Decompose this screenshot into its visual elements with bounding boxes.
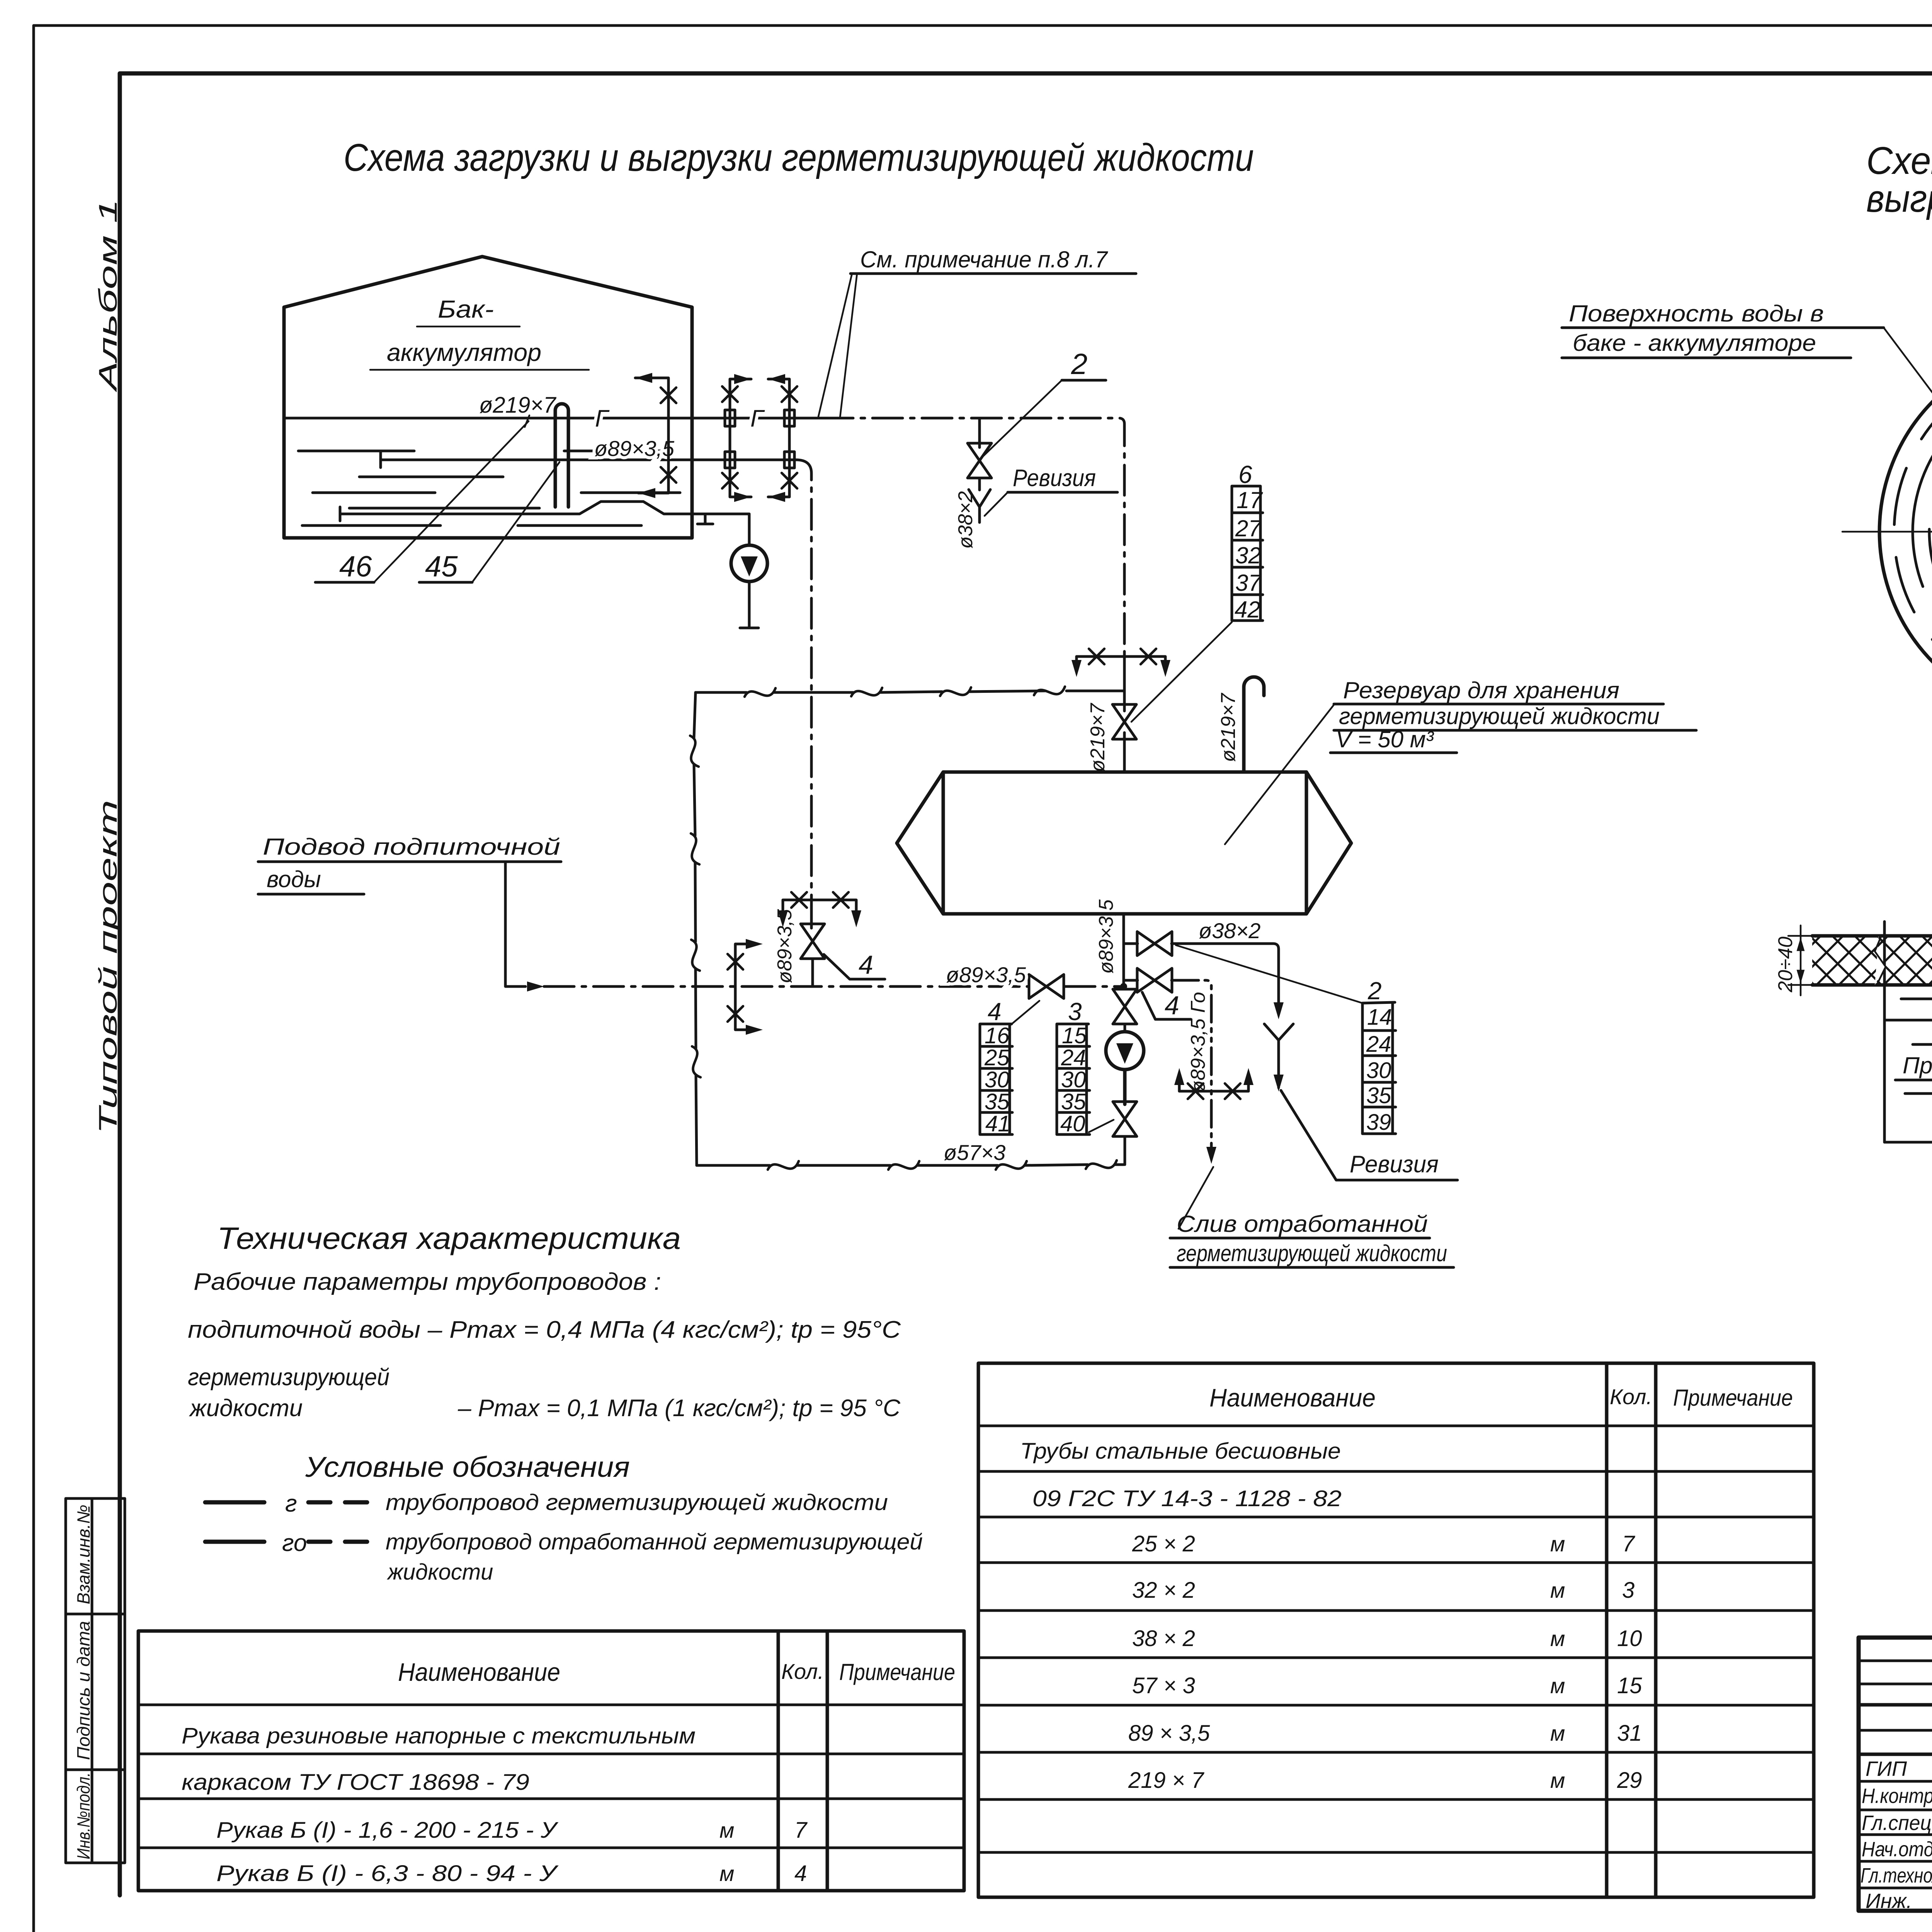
svg-text:Взам.инв.№: Взам.инв.№ — [73, 1505, 94, 1604]
svg-text:2: 2 — [1367, 977, 1382, 1005]
svg-text:– Pmax = 0,1 МПа (1 кгс/см²);: – Pmax = 0,1 МПа (1 кгс/см²); tp = 95 °C — [457, 1395, 901, 1422]
leader to Г line — [818, 274, 857, 417]
svg-text:Инж.: Инж. — [1866, 1889, 1912, 1913]
svg-text:20÷40: 20÷40 — [1774, 937, 1797, 993]
stamp horizontals — [1859, 1705, 1932, 1754]
hose bypass in-tank column — [635, 373, 676, 498]
svg-text:Г: Г — [750, 405, 765, 432]
leader 2 to revision valve — [983, 380, 1062, 456]
leader Слив — [1179, 1167, 1213, 1229]
svg-text:25 × 2: 25 × 2 — [1132, 1531, 1195, 1556]
svg-text:Рабочие параметры трубопрово: Рабочие параметры трубопроводов : — [194, 1269, 661, 1295]
svg-text:39: 39 — [1366, 1110, 1391, 1135]
valve V-pump-bottom — [1113, 1102, 1137, 1136]
svg-text:трубопровод герметизирующей: трубопровод герметизирующей жидкости — [386, 1490, 888, 1515]
svg-text:ø219×7: ø219×7 — [1087, 702, 1109, 772]
svg-text:Наименование: Наименование — [398, 1658, 560, 1686]
valve column from tank: bypass x-x — [783, 900, 856, 920]
svg-text:30: 30 — [1061, 1067, 1086, 1092]
gooseneck vent ф219х7 — [1244, 677, 1264, 772]
svg-text:Слив отработанной: Слив отработанной — [1177, 1211, 1428, 1237]
svg-text:30: 30 — [1366, 1058, 1391, 1083]
leader to reservoir — [1225, 705, 1334, 844]
svg-text:35: 35 — [985, 1089, 1010, 1114]
wire riser under reservoir — [1122, 914, 1125, 986]
svg-text:м: м — [719, 1818, 734, 1842]
water region boundary — [1884, 922, 1932, 1142]
swirl ring solid r308 — [1927, 394, 1932, 670]
svg-text:ø89×3,5: ø89×3,5 — [774, 909, 796, 983]
svg-text:жидкости: жидкости — [189, 1395, 303, 1422]
svg-text:27: 27 — [1235, 515, 1262, 541]
water level lines — [298, 451, 680, 526]
svg-text:17: 17 — [1236, 487, 1263, 513]
branch ф38х2 — [1124, 942, 1138, 945]
pump P1 suction line — [748, 514, 751, 545]
svg-text:м: м — [1550, 1768, 1565, 1793]
svg-text:герметизирующей жидкости: герметизирующей жидкости — [1339, 703, 1660, 729]
svg-text:2: 2 — [1071, 348, 1087, 381]
tank shell circle — [1879, 346, 1932, 718]
svg-text:45: 45 — [425, 550, 458, 583]
svg-text:38 × 2: 38 × 2 — [1132, 1626, 1195, 1651]
svg-text:Г: Г — [595, 405, 610, 432]
svg-text:15: 15 — [1062, 1023, 1087, 1048]
svg-text:Нач.отд.: Нач.отд. — [1862, 1838, 1932, 1861]
svg-text:42: 42 — [1235, 597, 1260, 622]
svg-text:Гл.технол: Гл.технол — [1861, 1864, 1932, 1887]
svg-text:Подвод подпиточной: Подвод подпиточной — [263, 834, 560, 860]
svg-text:ø89×3,5 Го: ø89×3,5 Го — [1187, 992, 1209, 1093]
svg-text:ø57×3: ø57×3 — [944, 1140, 1005, 1165]
centerline horizontal — [1842, 531, 1932, 533]
svg-text:м: м — [1550, 1673, 1565, 1698]
svg-text:м: м — [1550, 1532, 1565, 1556]
water surface line — [1884, 1019, 1932, 1022]
svg-text:57 × 3: 57 × 3 — [1132, 1673, 1195, 1698]
svg-text:09 Г2С ТУ 14-3 - 1128 - 8: 09 Г2С ТУ 14-3 - 1128 - 82 — [1032, 1486, 1342, 1511]
svg-text:4: 4 — [859, 950, 873, 980]
valve V-pump-top — [1124, 986, 1126, 989]
wire ф89 pipe — [381, 459, 796, 461]
svg-text:35: 35 — [1366, 1083, 1391, 1108]
break zigzag band left — [1875, 936, 1886, 985]
svg-text:аккумулятор: аккумулятор — [387, 338, 541, 366]
svg-text:37: 37 — [1235, 570, 1262, 596]
wire return hose line (left vertical with hose breaks) — [694, 692, 697, 1165]
svg-text:г: г — [285, 1490, 297, 1517]
svg-text:баке - аккумуляторе: баке - аккумуляторе — [1573, 330, 1816, 356]
svg-text:Ревизия: Ревизия — [1013, 465, 1096, 492]
number stack 6 — [1131, 461, 1263, 722]
svg-text:40: 40 — [1060, 1111, 1085, 1136]
pump P1 — [731, 545, 767, 628]
svg-text:Схема работы устройства загруз: Схема работы устройства загрузки и — [1866, 139, 1932, 182]
bypass x-x on return line — [728, 939, 763, 1035]
svg-text:Ревизия: Ревизия — [1350, 1151, 1439, 1178]
svg-text:25: 25 — [984, 1045, 1010, 1070]
svg-text:29: 29 — [1617, 1768, 1642, 1793]
branch Го (spent liquid) — [1124, 979, 1138, 982]
hose stub to inlet — [1066, 690, 1124, 692]
svg-text:ø219×7: ø219×7 — [1217, 692, 1240, 762]
svg-text:3: 3 — [1068, 998, 1082, 1026]
svg-text:16: 16 — [985, 1023, 1010, 1048]
svg-text:Типовой проект: Типовой проект — [94, 800, 122, 1134]
pump P2 — [1106, 1032, 1144, 1070]
junction dot — [1120, 983, 1127, 990]
tank Бак-аккумулятор outline — [284, 257, 692, 538]
floating blanket band — [1812, 936, 1932, 985]
number stack 4 — [980, 998, 1039, 1136]
legend line Го — [205, 1529, 923, 1585]
inlet pipe into reservoir — [1123, 657, 1126, 772]
bypass x-x on drain — [1179, 1075, 1248, 1091]
svg-text:Рукав Б (I) - 6,3 - 80 -: Рукав Б (I) - 6,3 - 80 - 94 - У — [216, 1861, 559, 1886]
svg-text:Гл.спец.: Гл.спец. — [1862, 1811, 1932, 1835]
svg-text:24: 24 — [1366, 1032, 1391, 1057]
valve V-219 inlet — [1112, 704, 1136, 739]
svg-text:ø89×3,5: ø89×3,5 — [594, 436, 675, 461]
svg-text:7: 7 — [794, 1818, 808, 1843]
sidebar stamp boxes — [66, 1498, 125, 1863]
riser pipe inside tank — [555, 404, 568, 507]
wire ф57х3 bottom run — [697, 1165, 1124, 1165]
hose connection A with flanges — [722, 374, 751, 502]
svg-text:41: 41 — [985, 1111, 1010, 1136]
svg-text:35: 35 — [1061, 1089, 1086, 1114]
svg-text:воды: воды — [267, 866, 321, 892]
svg-text:4: 4 — [1165, 991, 1179, 1020]
svg-text:ø38×2: ø38×2 — [954, 491, 977, 549]
svg-text:См. примечание п.8 л.7: См. примечание п.8 л.7 — [860, 247, 1109, 272]
stamp frame — [1859, 1638, 1932, 1911]
reservoir left cone — [897, 772, 943, 914]
left parts table frame — [138, 1631, 964, 1891]
svg-text:31: 31 — [1617, 1721, 1642, 1746]
svg-text:7: 7 — [1622, 1531, 1636, 1556]
svg-text:Трубы стальные бесшовные: Трубы стальные бесшовные — [1020, 1439, 1341, 1464]
svg-text:жидкости: жидкости — [386, 1560, 493, 1585]
svg-text:Техническая характеристика: Техническая характеристика — [217, 1221, 681, 1255]
number stack 3 — [1057, 998, 1114, 1136]
svg-text:м: м — [1550, 1578, 1565, 1602]
svg-text:Кол.: Кол. — [1610, 1384, 1652, 1409]
valve V-tank-return — [810, 900, 813, 928]
swirl ring solid r395 — [1850, 317, 1932, 747]
svg-text:Инв.№подл.: Инв.№подл. — [73, 1772, 94, 1859]
svg-text:Примечание: Примечание — [839, 1659, 955, 1685]
svg-text:го: го — [282, 1530, 307, 1556]
svg-text:Альбом 1: Альбом 1 — [94, 199, 122, 393]
svg-text:10: 10 — [1617, 1626, 1642, 1651]
svg-text:V = 50 м³: V = 50 м³ — [1336, 726, 1434, 752]
svg-text:6: 6 — [1238, 461, 1252, 488]
svg-text:14: 14 — [1367, 1005, 1392, 1030]
wire upper hose run to reservoir — [696, 691, 1045, 692]
dimension 20÷40 — [1788, 925, 1812, 995]
reservoir body — [943, 772, 1306, 914]
svg-text:м: м — [1550, 1626, 1565, 1651]
legend line Г — [205, 1490, 888, 1517]
svg-text:Резервуар для хранения: Резервуар для хранения — [1343, 677, 1619, 703]
svg-text:выгрузки герметизирующей жидко: выгрузки герметизирующей жидкости — [1866, 177, 1932, 220]
hose connection B with flanges — [768, 374, 797, 502]
leader 46 — [374, 421, 529, 582]
svg-text:3: 3 — [1622, 1578, 1634, 1603]
svg-text:Подпись и дата: Подпись и дата — [73, 1621, 94, 1760]
drain funnel — [969, 490, 990, 522]
number stack 2 — [1362, 977, 1396, 1135]
svg-text:Рукава резиновые напорные с: Рукава резиновые напорные с текстильным — [182, 1723, 696, 1748]
leader 45 — [472, 462, 560, 582]
wire Г pipe (sealing liquid line) — [286, 417, 823, 420]
svg-text:15: 15 — [1617, 1673, 1642, 1698]
leader to shell — [1884, 328, 1932, 422]
svg-text:Кол.: Кол. — [781, 1659, 824, 1684]
svg-text:32 × 2: 32 × 2 — [1132, 1578, 1195, 1603]
svg-text:4: 4 — [988, 998, 1002, 1026]
swirl ring dashed r265 — [1925, 392, 1932, 672]
swirl ring dashed r352 — [1899, 365, 1932, 698]
svg-text:Н.контр.: Н.контр. — [1862, 1784, 1932, 1808]
svg-text:46: 46 — [339, 550, 372, 583]
valve V-rev (ф38х2) — [968, 443, 992, 478]
reservoir right cone — [1306, 772, 1351, 914]
svg-text:Наименование: Наименование — [1209, 1383, 1376, 1412]
svg-text:Схема загрузки и выгрузки герм: Схема загрузки и выгрузки герметизирующе… — [344, 136, 1254, 179]
wire feed water drop — [505, 862, 526, 986]
svg-text:32: 32 — [1235, 543, 1261, 568]
svg-text:Прорези: Прорези — [1903, 1053, 1932, 1078]
svg-text:подпиточной воды – Pmax = 0: подпиточной воды – Pmax = 0,4 МПа (4 кгс… — [188, 1316, 901, 1343]
svg-text:ø89×3,5: ø89×3,5 — [1095, 899, 1117, 974]
svg-text:24: 24 — [1061, 1045, 1086, 1070]
water dashes — [1901, 999, 1932, 1119]
svg-text:89 × 3,5: 89 × 3,5 — [1128, 1721, 1210, 1746]
drain tick symbol — [697, 514, 713, 524]
svg-text:Примечание: Примечание — [1673, 1385, 1793, 1411]
swirl ring dashed r445 — [1894, 361, 1932, 703]
svg-text:Условные обозначения: Условные обозначения — [305, 1451, 630, 1483]
svg-text:герметизирующей жидкости: герметизирующей жидкости — [1177, 1240, 1447, 1266]
svg-text:30: 30 — [985, 1067, 1010, 1092]
svg-text:ø89×3,5: ø89×3,5 — [946, 963, 1026, 987]
svg-text:м: м — [719, 1861, 734, 1886]
leader to stack 2 — [1176, 945, 1362, 1003]
svg-text:4: 4 — [794, 1861, 807, 1886]
valve revision branch — [978, 418, 981, 447]
tank bottom suction pipe with mound — [340, 502, 749, 514]
svg-text:ø219×7: ø219×7 — [479, 393, 557, 418]
svg-text:ГИП: ГИП — [1866, 1757, 1907, 1781]
drain funnel (branch) — [1264, 1024, 1293, 1088]
svg-text:ø38×2: ø38×2 — [1199, 918, 1260, 943]
valve V-main ф89 — [1029, 975, 1064, 998]
svg-text:трубопровод отработанной гер: трубопровод отработанной герметизирующей — [386, 1529, 923, 1554]
bypass x-x over reservoir inlet — [1077, 656, 1165, 670]
svg-text:м: м — [1550, 1721, 1565, 1745]
wire make-up water main (dash-dot) — [544, 985, 1028, 988]
svg-text:Рукав Б (I) - 1,6 - 200 -: Рукав Б (I) - 1,6 - 200 - 215 - У — [216, 1818, 558, 1843]
svg-text:Бак-: Бак- — [438, 295, 494, 323]
svg-text:Поверхность воды в: Поверхность воды в — [1569, 301, 1824, 327]
svg-text:герметизирующей: герметизирующей — [188, 1364, 389, 1391]
middle pipes table frame — [978, 1363, 1814, 1897]
svg-text:219 × 7: 219 × 7 — [1128, 1768, 1205, 1793]
svg-text:каркасом ТУ ГОСТ 18698 -: каркасом ТУ ГОСТ 18698 - 79 — [182, 1770, 529, 1795]
